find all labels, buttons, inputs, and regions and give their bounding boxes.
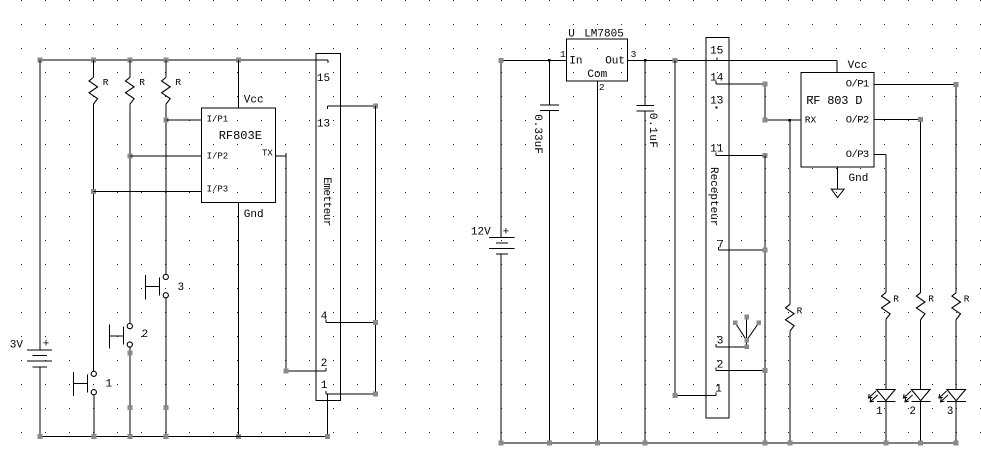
svg-text:Gnd: Gnd	[849, 173, 869, 185]
node: junction top rail / Vcc lead	[236, 58, 241, 63]
node: U1 gnd at ground rail	[236, 434, 241, 439]
svg-text:12V: 12V	[471, 227, 491, 239]
node: pin4 junction on right bus	[373, 320, 378, 325]
wire: R3 to push button 3	[165, 104, 167, 274]
node: pin7 junction	[762, 248, 767, 253]
pin 13 stub tick	[716, 107, 718, 109]
wire: U1 Vcc lead to top rail	[238, 60, 240, 108]
node: corner 12V/In wire	[499, 58, 504, 63]
node: pin2 junction	[762, 368, 767, 373]
node: rail / C2	[643, 441, 648, 446]
svg-text:In: In	[569, 56, 582, 68]
svg-text:13: 13	[317, 119, 330, 131]
wire: O/P3 to LED1 column	[874, 154, 886, 292]
svg-text:LM7805: LM7805	[584, 29, 624, 41]
svg-text:15: 15	[317, 73, 330, 85]
wire: R5 to LED1	[885, 320, 887, 390]
wire: R1 to push button 1	[92, 104, 94, 371]
svg-text:Gnd: Gnd	[244, 209, 264, 221]
svg-text:2: 2	[717, 359, 724, 371]
wire: U3 Gnd lead	[837, 167, 839, 189]
resistor R4	[786, 304, 795, 331]
node: junction R1 column / IP3 wire	[91, 189, 96, 194]
node: rail / Com	[595, 441, 600, 446]
resistor R2	[129, 60, 131, 78]
LED 3	[947, 390, 966, 401]
node: RX wire joint	[762, 118, 767, 123]
push button 2	[127, 324, 132, 329]
svg-text:I/P3: I/P3	[207, 185, 229, 195]
svg-text:I/P2: I/P2	[207, 151, 229, 161]
wire: left vertical from rail to battery +	[39, 60, 41, 350]
wire: J2 pin 7 stub	[719, 247, 765, 250]
wire: J2 pin 11 to ground bus	[716, 153, 765, 156]
LED 2	[911, 390, 930, 401]
svg-text:R: R	[928, 293, 934, 304]
wire: J2 pin 3 to antenna	[716, 344, 747, 347]
wire: button 1 to ground rail	[93, 395, 95, 437]
node: rail / 12V battery	[499, 441, 504, 446]
svg-text:+: +	[503, 227, 510, 239]
svg-text:Com: Com	[587, 69, 607, 81]
svg-text:14: 14	[710, 73, 724, 85]
node: ground rail / pin1 wire	[325, 434, 330, 439]
node: wire joint on button 2 column	[127, 405, 132, 410]
svg-text:Out: Out	[605, 56, 625, 68]
capacitor C1 0.33uF	[540, 60, 559, 443]
wire: node to pin I/P1	[166, 119, 202, 121]
ground symbol	[831, 189, 844, 198]
wire: RX node down through R4	[789, 120, 791, 304]
svg-text:O/P2: O/P2	[846, 115, 869, 127]
node: rail / LED3	[954, 441, 959, 446]
svg-text:Vcc: Vcc	[244, 95, 264, 107]
wire: button 3 to ground rail	[165, 298, 167, 437]
wire: R4 to ground rail	[789, 331, 791, 443]
svg-text:2: 2	[142, 329, 149, 341]
svg-text:R: R	[175, 77, 181, 88]
wire: J1 pin 1 stub to right bus	[326, 391, 375, 394]
node: junction R3 column / IP1 wire	[163, 117, 168, 122]
svg-text:R: R	[797, 305, 803, 316]
wire: R6 to LED2	[920, 320, 922, 390]
node: wire joint below button 2	[127, 351, 132, 356]
wire: R7 to LED3	[955, 320, 957, 390]
wire: LED1 cathode to ground rail	[885, 401, 887, 443]
wire: O/P1 to LED3 column	[874, 84, 956, 292]
svg-text:1: 1	[560, 49, 566, 60]
wire: ground bus vertical pins 11-7-2	[764, 156, 766, 444]
svg-text:O/P3: O/P3	[846, 149, 869, 161]
svg-text:15: 15	[710, 45, 723, 57]
node: rail / LED1	[883, 441, 888, 446]
svg-text:Vcc: Vcc	[848, 60, 868, 72]
wire: U1 Gnd lead to ground rail	[238, 202, 240, 436]
wire: top +3V rail	[40, 60, 328, 63]
node: ground rail / button 1	[91, 434, 96, 439]
node: corner TX wire / pin2 wire	[284, 369, 289, 374]
node: junction top rail / R3 column	[163, 58, 168, 63]
node: junction top rail / R1 column	[91, 58, 96, 63]
push button 3	[163, 274, 168, 279]
resistor R1	[92, 60, 94, 78]
wire: J2 pin 14 to RX of RF803D	[716, 81, 801, 120]
wire: U2 Com down to ground rail	[597, 81, 599, 443]
svg-text:1: 1	[876, 406, 883, 418]
svg-text:1: 1	[106, 379, 113, 391]
svg-text:2: 2	[909, 406, 916, 418]
battery BT2 12V	[489, 238, 515, 254]
regulator U2 LM7805 body	[566, 39, 627, 81]
svg-text:4: 4	[321, 311, 328, 323]
svg-text:R: R	[964, 293, 970, 304]
wire: J1 pin 1 down to ground rail	[326, 394, 328, 436]
wire: +5V bus down to J2 pin 1	[675, 60, 716, 395]
wire: LED2 cathode to ground rail	[920, 401, 922, 443]
wire: J1 pin 13 across to right bus	[328, 106, 376, 109]
wire: bottom ground rail (right circuit)	[501, 442, 956, 444]
wire: battery - to ground rail	[39, 367, 41, 437]
wire: node to pin I/P3	[93, 191, 201, 193]
wire: J2 pin 2 stub	[716, 368, 765, 371]
svg-text:RF803E: RF803E	[219, 129, 262, 143]
wire: bottom ground rail (left circuit)	[40, 436, 328, 438]
wire: J1 pin 4 stub	[326, 319, 375, 322]
svg-text:11: 11	[710, 144, 724, 156]
wire: 12V + up and over to regulator In	[501, 60, 566, 237]
capacitor C2 0.1uF	[636, 60, 654, 443]
svg-text:1: 1	[321, 380, 328, 392]
wire: button 2 to ground rail	[129, 347, 131, 437]
svg-text:2: 2	[599, 82, 605, 93]
svg-text:13: 13	[710, 96, 723, 108]
wire: right bus vertical pin13-pin4-pin1	[374, 106, 376, 394]
svg-text:3: 3	[717, 336, 724, 348]
node: ground rail / button 3	[163, 434, 168, 439]
resistor R3	[165, 60, 167, 78]
node: junction top rail / R2 column	[127, 58, 132, 63]
IC U1 RF803E body	[202, 108, 276, 202]
resistor R5	[882, 293, 891, 320]
svg-text:0.1uF: 0.1uF	[646, 113, 658, 149]
connector J2 body	[706, 38, 729, 419]
node: pin1 corner on right bus	[373, 392, 378, 397]
node: corner bus / pin1 wire	[673, 393, 678, 398]
resistor R7	[952, 293, 961, 320]
node: rail / C1	[547, 441, 552, 446]
svg-text:RX: RX	[805, 114, 817, 125]
svg-text:3: 3	[178, 282, 185, 294]
node: junction top rail / battery column	[37, 58, 42, 63]
svg-text:+: +	[43, 338, 50, 350]
svg-text:RF 803 D: RF 803 D	[806, 94, 862, 108]
node: rail / ground bus	[762, 441, 767, 446]
node: O/P2 corner	[918, 117, 923, 122]
battery BT1 3V	[27, 350, 52, 367]
svg-text:Emetteur: Emetteur	[320, 177, 332, 226]
svg-text:Recepteur: Recepteur	[707, 167, 719, 226]
node: rail / LED2	[918, 441, 923, 446]
node: ground rail / battery	[37, 434, 42, 439]
wire: node to pin I/P2	[130, 155, 202, 157]
LED 1	[877, 390, 896, 401]
svg-text:R: R	[893, 293, 899, 304]
push button 1	[91, 371, 96, 376]
connector J1 body	[316, 53, 341, 400]
wire: 12V - down to ground rail	[500, 254, 502, 443]
svg-text:R: R	[103, 77, 109, 88]
IC U3 RF803D body	[801, 72, 874, 167]
node: pin14 corner	[762, 82, 767, 87]
svg-text:0.33uF: 0.33uF	[531, 114, 543, 154]
svg-text:3V: 3V	[10, 339, 24, 351]
node: junction R2 column / IP2 wire	[127, 153, 132, 158]
node: O/P1 corner	[954, 82, 959, 87]
wire: LED3 cathode to ground rail	[955, 401, 957, 443]
svg-text:2: 2	[321, 358, 328, 370]
svg-text:R: R	[139, 77, 145, 88]
node: rail / R4	[787, 441, 792, 446]
node: pin11 corner	[762, 153, 767, 158]
svg-text:3: 3	[631, 49, 637, 60]
antenna	[746, 317, 748, 347]
node: junction Out rail / pin1 bus	[673, 58, 678, 63]
wire: U2 Out rail over to RF803D Vcc	[628, 57, 837, 72]
node: pin13 corner	[373, 103, 378, 108]
svg-text:TX: TX	[262, 149, 273, 159]
svg-text:3: 3	[947, 406, 954, 418]
svg-text:U: U	[568, 29, 575, 41]
svg-text:1: 1	[715, 383, 722, 395]
svg-text:O/P1: O/P1	[846, 79, 869, 91]
resistor R6	[916, 293, 925, 320]
wire: R2 to push button 2	[129, 104, 131, 323]
wire: O/P2 to LED2 column	[874, 119, 921, 292]
svg-text:I/P1: I/P1	[207, 115, 229, 125]
node: ground rail / button 2	[127, 434, 132, 439]
node: wire joint on button 3 column	[163, 405, 168, 410]
wire: TX to connector pin 2	[275, 153, 326, 371]
